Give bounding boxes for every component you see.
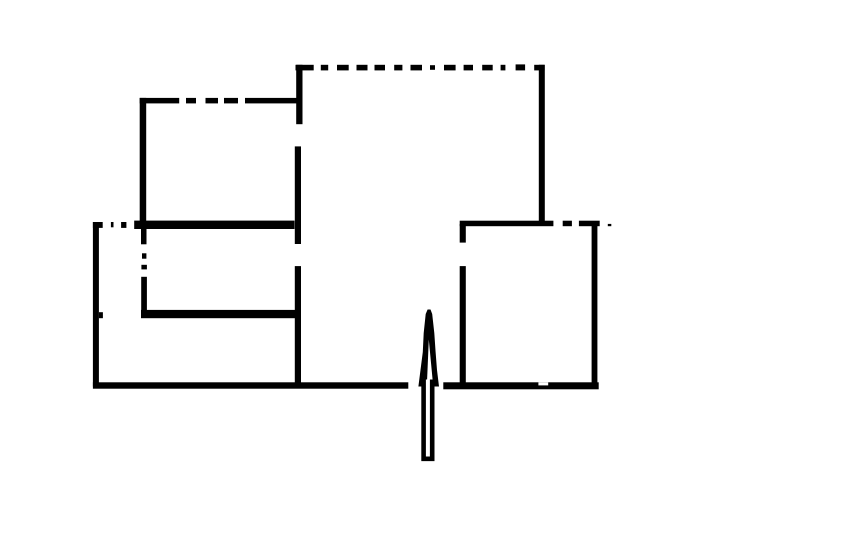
wall: big room left partition x~296-302 (three segments with door gaps)	[295, 65, 303, 386]
wall: right room left vertical x~460-466 (door gap)	[460, 224, 466, 386]
wall: thick bar, bottom of top-left room, y~221-229	[134, 221, 294, 229]
arrow (north indicator): outlined head	[418, 310, 439, 387]
wall: right room top edge y~221-226 (with dash gap)	[460, 221, 600, 227]
small dash right of right room corner	[608, 224, 612, 226]
wall: big room top (dashed), y~65	[296, 64, 545, 70]
wall: bottom outer, left segment y~382-389	[93, 382, 408, 388]
wall: top-left room top edge (dash-dot), y~98	[140, 98, 303, 104]
wall: lower-left room left inner edge x~141-147 (dashed with gaps)	[141, 229, 147, 318]
wall: top-left room left vertical x~140-146	[140, 98, 147, 229]
wall: right room right vertical x~592-597	[592, 224, 598, 385]
wall: bottom outer, right segment y~382-389	[443, 382, 598, 389]
notch (white) in bottom wall near x~543	[538, 382, 548, 385]
arrow (north indicator): hollow shaft	[424, 380, 433, 459]
tick on left outer wall at y~313	[99, 312, 103, 318]
wall: left extension (dash-dot) at y~222	[93, 222, 127, 228]
wall: thick bar, bottom of lower-left room, y~310-318	[141, 310, 296, 318]
wall: left outer vertical x~93-99	[93, 222, 99, 387]
wall: big room right vertical x~539-545	[539, 65, 545, 226]
